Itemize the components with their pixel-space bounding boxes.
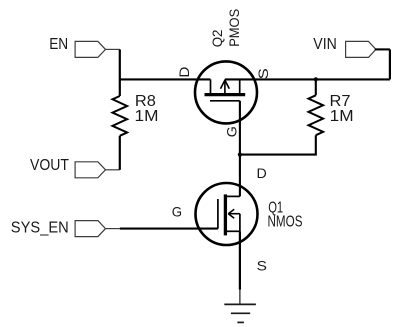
port flag VOUT xyxy=(75,162,105,178)
svg-text:Q2: Q2 xyxy=(209,29,225,47)
pin stub EN xyxy=(106,48,120,50)
wire VIN drop xyxy=(389,49,391,79)
pin stub SYS_EN xyxy=(106,228,120,230)
wire EN vertical xyxy=(119,49,121,96)
wire VIN horizontal xyxy=(375,48,390,50)
svg-text:S: S xyxy=(257,257,267,273)
resistor R8 xyxy=(113,96,128,136)
port flag VIN xyxy=(346,41,376,57)
svg-text:G: G xyxy=(172,203,182,219)
svg-text:VOUT: VOUT xyxy=(30,157,69,174)
wire R7 top xyxy=(315,79,317,95)
ground bar 2 xyxy=(231,312,250,314)
resistor R7 xyxy=(309,95,324,135)
svg-text:VIN: VIN xyxy=(313,36,337,53)
port flag EN xyxy=(75,41,105,57)
Q1 bulk line xyxy=(239,214,241,232)
pin stub VOUT xyxy=(106,169,120,171)
Q2 source stub xyxy=(239,79,241,93)
Q2 channel bar xyxy=(205,93,246,96)
Q2 drain stub xyxy=(210,79,212,93)
svg-text:NMOS: NMOS xyxy=(268,213,303,230)
svg-text:SYS_EN: SYS_EN xyxy=(11,219,69,236)
svg-text:PMOS: PMOS xyxy=(226,9,242,47)
svg-text:EN: EN xyxy=(49,36,68,53)
node junction dot R7/rail xyxy=(314,77,318,81)
wire SYS_EN to Q1 gate xyxy=(120,228,218,230)
svg-text:G: G xyxy=(223,126,239,137)
svg-text:D: D xyxy=(257,165,267,181)
ground bar 3 xyxy=(237,321,244,323)
Q1 drain stub xyxy=(225,195,240,197)
svg-text:1M: 1M xyxy=(330,108,354,125)
Q1 gate bar xyxy=(217,199,219,229)
ground pin line xyxy=(239,290,241,305)
ground bar 1 xyxy=(224,303,256,305)
port flag SYS_EN xyxy=(75,221,105,237)
node junction dot gate net xyxy=(238,153,242,157)
transistor Q1 body xyxy=(196,183,258,245)
Q2 bulk arrow xyxy=(224,79,226,93)
svg-text:1M: 1M xyxy=(135,108,159,125)
Q1 bulk arrow xyxy=(228,213,240,215)
wire top rail right xyxy=(225,78,390,80)
svg-text:D: D xyxy=(176,67,192,78)
svg-text:S: S xyxy=(255,68,271,79)
Q2 gate bar xyxy=(210,100,240,102)
Q1 source stub xyxy=(225,230,240,232)
transistor Q2 body xyxy=(195,61,257,123)
wire R8 bottom to VOUT xyxy=(119,136,121,170)
Q1 channel bar xyxy=(224,194,227,235)
wire Q1 source down xyxy=(239,231,241,289)
wire R7 bottom xyxy=(240,135,316,154)
wire Q2 gate to Q1 drain xyxy=(239,101,241,197)
wire top rail left xyxy=(120,78,211,80)
